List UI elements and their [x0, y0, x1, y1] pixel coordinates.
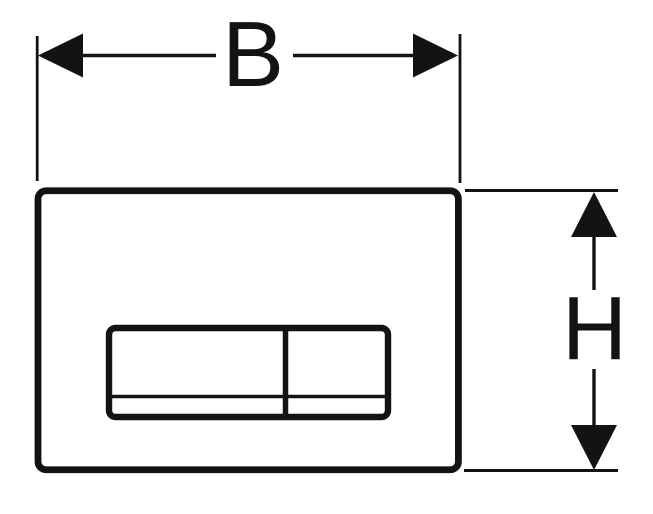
extension line bottom of dimension H [464, 469, 618, 472]
dimension line B right segment [293, 54, 416, 57]
arrowhead B left [38, 34, 83, 78]
dimension line H lower segment [592, 369, 595, 427]
plate outline [38, 191, 458, 470]
button divider vertical [283, 328, 289, 417]
extension line right of dimension B [459, 34, 462, 183]
extension line top of dimension H [465, 189, 618, 192]
arrowhead B right [413, 34, 458, 78]
svg-text:H: H [562, 279, 627, 379]
svg-text:B: B [222, 2, 284, 106]
dimension line B left segment [80, 54, 216, 57]
extension line left of dimension B [36, 36, 39, 181]
button frame [109, 328, 388, 417]
button divider horizontal [109, 395, 388, 398]
dimension line H upper segment [592, 235, 595, 290]
arrowhead H bottom [571, 425, 617, 470]
arrowhead H top [571, 192, 617, 237]
